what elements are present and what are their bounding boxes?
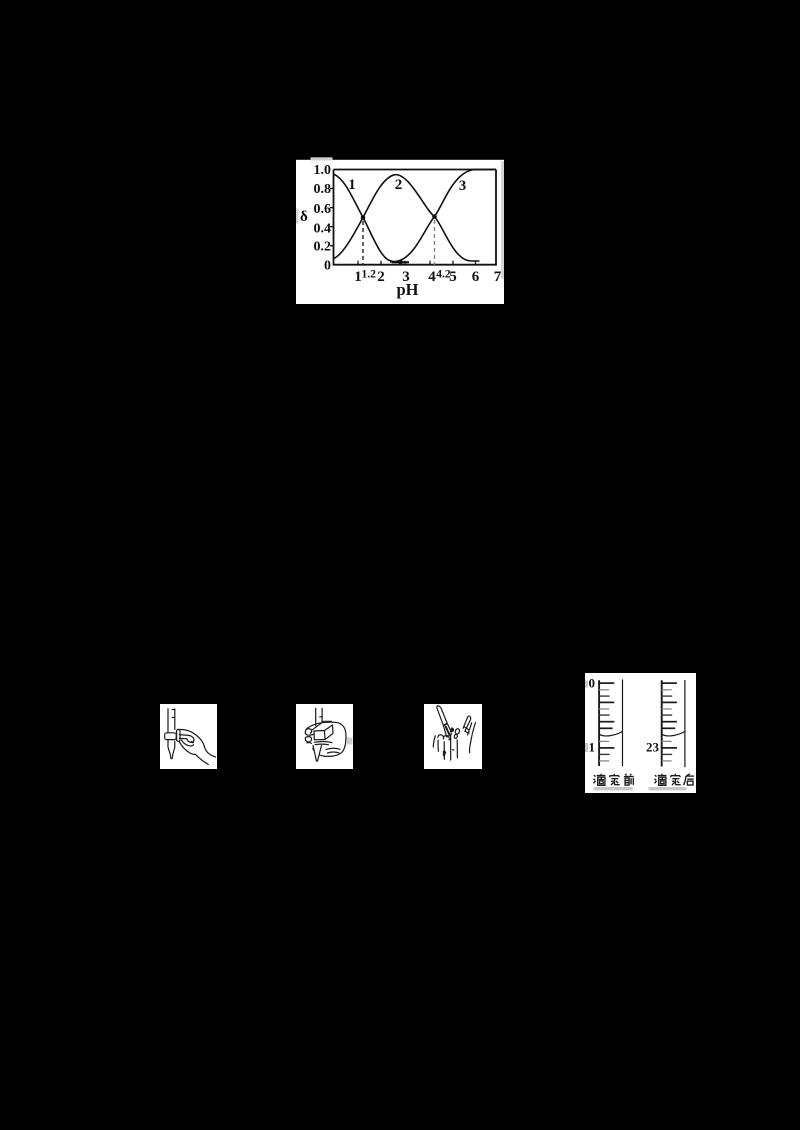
right burette long ticks (661, 683, 676, 748)
fist outline (312, 722, 346, 756)
tube graduation mark (319, 715, 321, 717)
figure white background (296, 160, 504, 304)
hand figure C: squeezing tip (wrong operation) (424, 704, 482, 769)
svg-text:δ: δ (300, 209, 308, 225)
bridge between fingers (464, 726, 469, 732)
dark drop blob (450, 727, 453, 731)
figure white background (296, 704, 353, 769)
y-axis tick 0.6 (330, 207, 334, 209)
svg-text:0: 0 (324, 259, 331, 274)
glass bead ring (454, 728, 459, 734)
hand figure A: rotating stopcock from right side (160, 704, 217, 769)
plot frame (axes box) (334, 170, 497, 265)
nozzle inner shade (445, 726, 448, 734)
y-axis tick 0.2 (330, 245, 334, 247)
svg-text:7: 7 (494, 269, 502, 285)
svg-text:1: 1 (588, 740, 595, 755)
svg-text:1.2: 1.2 (362, 269, 377, 281)
svg-text:0: 0 (588, 676, 595, 691)
index finger bar (179, 734, 188, 738)
stopcock handle plate (314, 725, 333, 740)
stopcock barrel (164, 732, 176, 739)
wrist inner line (195, 754, 208, 764)
grey edge smudge near label 0 (585, 681, 588, 688)
thumb curl (181, 740, 193, 746)
knuckle bump 1 (437, 734, 443, 738)
finger shaft 3 (449, 735, 451, 760)
svg-text:pH: pH (396, 280, 418, 299)
thumb tip oval (305, 728, 311, 732)
left burette short grey ticks (599, 690, 609, 761)
dashed guide at pH 4.2 (434, 220, 436, 265)
svg-text:1.0: 1.0 (314, 163, 332, 178)
figure white background (424, 704, 482, 769)
x-axis tick pH5 (452, 261, 454, 265)
svg-text:0.8: 0.8 (314, 182, 332, 197)
figure white background (160, 704, 217, 769)
small ring below (453, 734, 457, 739)
hand top edge and right side (178, 729, 215, 757)
crossing dot 1-3 near zero (398, 260, 403, 265)
palm bottom edge (179, 741, 195, 754)
finger shaft 2 (443, 741, 445, 759)
middle finger raised (467, 722, 475, 741)
caption before-titration (593, 774, 633, 786)
crossing dot 2-3 (432, 214, 437, 219)
y-axis tick 0.4 (330, 226, 334, 228)
curve 2 (species 2 bell) (334, 175, 480, 261)
svg-text:2: 2 (377, 269, 385, 285)
joint mark (443, 723, 447, 725)
curve 3 (species 3 rising) (390, 170, 496, 263)
stopcock handle (176, 729, 179, 741)
grey edge smudge near label 1 (585, 743, 588, 752)
left burette long ticks (599, 683, 614, 748)
knuckle crease (326, 748, 340, 753)
y-axis tick 0.8 (330, 188, 334, 190)
fingernail P mark (443, 751, 445, 756)
burette tip cone (313, 745, 322, 761)
fingertip shadow (190, 740, 194, 743)
svg-text:6: 6 (472, 269, 480, 285)
svg-text:23: 23 (646, 740, 660, 755)
figure white background (585, 673, 696, 793)
x-axis tick pH3 (404, 261, 406, 265)
left burette medium ticks (599, 696, 610, 754)
shaft tick (452, 748, 453, 750)
burette tube (168, 708, 175, 732)
left pinky edge (433, 735, 435, 746)
svg-text:0.2: 0.2 (314, 240, 332, 255)
svg-text:5: 5 (449, 269, 457, 285)
baseline bar under dot (392, 262, 409, 264)
left burette wall right (621, 679, 623, 766)
x-axis tick pH2 (380, 261, 382, 265)
index finger raised (463, 716, 471, 731)
grey edge smudge near delta (296, 209, 299, 224)
thumb upper (305, 725, 314, 735)
svg-text:2: 2 (395, 177, 403, 193)
right burette wall left (660, 680, 662, 766)
third finger tip (307, 741, 312, 744)
right meniscus (661, 731, 684, 736)
tip nozzle segment (443, 723, 451, 737)
x-axis tick pH6 (475, 261, 477, 265)
crossing dot 1-2 (361, 215, 366, 220)
right burette short grey ticks (661, 690, 671, 761)
svg-text:0.4: 0.4 (314, 221, 332, 236)
tube graduation marks (172, 709, 175, 717)
right burette wall right (683, 680, 685, 767)
distribution-fraction vs pH chart figure (296, 156, 504, 304)
dashed guide at pH 1.2 (362, 221, 364, 265)
left meniscus (599, 731, 622, 736)
plate top edge from tube (311, 721, 331, 730)
finger curl lines (314, 741, 332, 744)
svg-text:1: 1 (348, 177, 356, 193)
finger shaft 1 (437, 740, 439, 751)
grey scan band under captions (593, 787, 632, 790)
burette scale readings figure (585, 673, 696, 793)
svg-text:4: 4 (428, 269, 436, 285)
curve 1 (species 1 falling) (334, 174, 410, 262)
left burette wall left (598, 680, 600, 766)
grey scan smudge top (311, 157, 333, 160)
right burette medium ticks (661, 696, 672, 754)
hand figure B: fist gripping stopcock from behind (296, 704, 353, 769)
finger shaft 4 (456, 739, 458, 757)
burette tube (315, 708, 321, 725)
second finger tip (305, 736, 311, 741)
curled knuckle loop (186, 735, 193, 742)
x-axis tick pH1 (357, 261, 359, 265)
knuckle bump 2 (443, 735, 449, 739)
grey scan band right edge (501, 161, 504, 279)
svg-text:3: 3 (459, 178, 467, 194)
caption after-titration (654, 774, 693, 786)
x-axis tick pH4 (429, 261, 431, 265)
svg-text:0.6: 0.6 (314, 202, 332, 217)
burette tip held diagonally (436, 705, 446, 725)
thumb web curve right (469, 741, 470, 753)
burette lower tube and tip (168, 739, 175, 758)
